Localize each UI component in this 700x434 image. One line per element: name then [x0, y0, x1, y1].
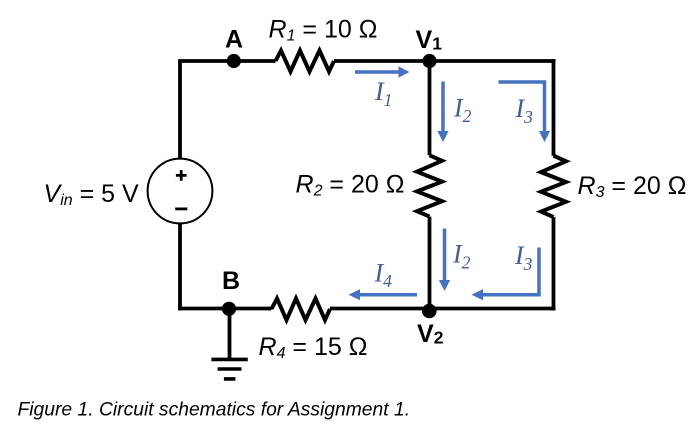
svg-text:Vin = 5 V: Vin = 5 V — [44, 180, 139, 209]
current arrow I3 (top, L-shaped) — [499, 82, 551, 142]
node V2 (junction dot) — [422, 304, 437, 319]
voltage source Vin (circle) — [148, 159, 213, 224]
wire: right vertical from R3 to bottom-right corner — [552, 217, 556, 310]
resistor R2 — [417, 155, 442, 216]
node V1 (junction dot) — [422, 54, 436, 68]
ground stem wire — [228, 309, 232, 360]
svg-text:R3 = 20 Ω: R3 = 20 Ω — [578, 172, 687, 201]
wire: bottom-left vertical from source - to node B level — [178, 224, 182, 311]
svg-text:R2 = 20 Ω: R2 = 20 Ω — [296, 171, 405, 200]
node A (junction dot) — [227, 54, 241, 68]
wire: bottom horizontal from node B to R4 — [178, 307, 271, 311]
voltage source + terminal mark — [176, 170, 187, 181]
current arrow I1 — [355, 66, 410, 77]
current arrow I2 (bottom) — [439, 229, 450, 292]
resistor R1 — [276, 51, 335, 72]
wire: top horizontal from corner to R1 — [178, 59, 275, 63]
svg-text:Figure 1. Circuit schematics f: Figure 1. Circuit schematics for Assignm… — [18, 400, 411, 421]
wire: top-left vertical (node A branch down to source +) — [178, 61, 182, 159]
ground symbol bars — [211, 359, 247, 379]
wire: top horizontal from R1 to node V1 and to top-right corner — [334, 59, 555, 63]
svg-text:R1 = 10 Ω: R1 = 10 Ω — [269, 16, 378, 45]
current arrow I3 (bottom, L-shaped) — [472, 248, 540, 301]
svg-text:B: B — [222, 267, 240, 295]
wire: bottom horizontal from R4 to node V2 — [330, 307, 430, 311]
wire: bottom horizontal from node V2 to bottom-right corner — [430, 307, 556, 311]
svg-text:A: A — [225, 26, 243, 54]
resistor R3 — [541, 156, 566, 217]
wire: right vertical from top-right corner to R3 — [552, 59, 556, 156]
current arrow I4 — [349, 289, 418, 300]
voltage source - terminal mark — [175, 207, 187, 210]
wire: middle vertical from node V1 down to R2 — [428, 61, 432, 155]
resistor R4 — [272, 299, 331, 321]
current arrow I2 (top) — [437, 82, 448, 143]
node B (junction dot) — [222, 302, 236, 316]
wire: middle vertical from R2 down to node V2 — [428, 217, 432, 309]
svg-text:R4 = 15 Ω: R4 = 15 Ω — [259, 333, 368, 362]
